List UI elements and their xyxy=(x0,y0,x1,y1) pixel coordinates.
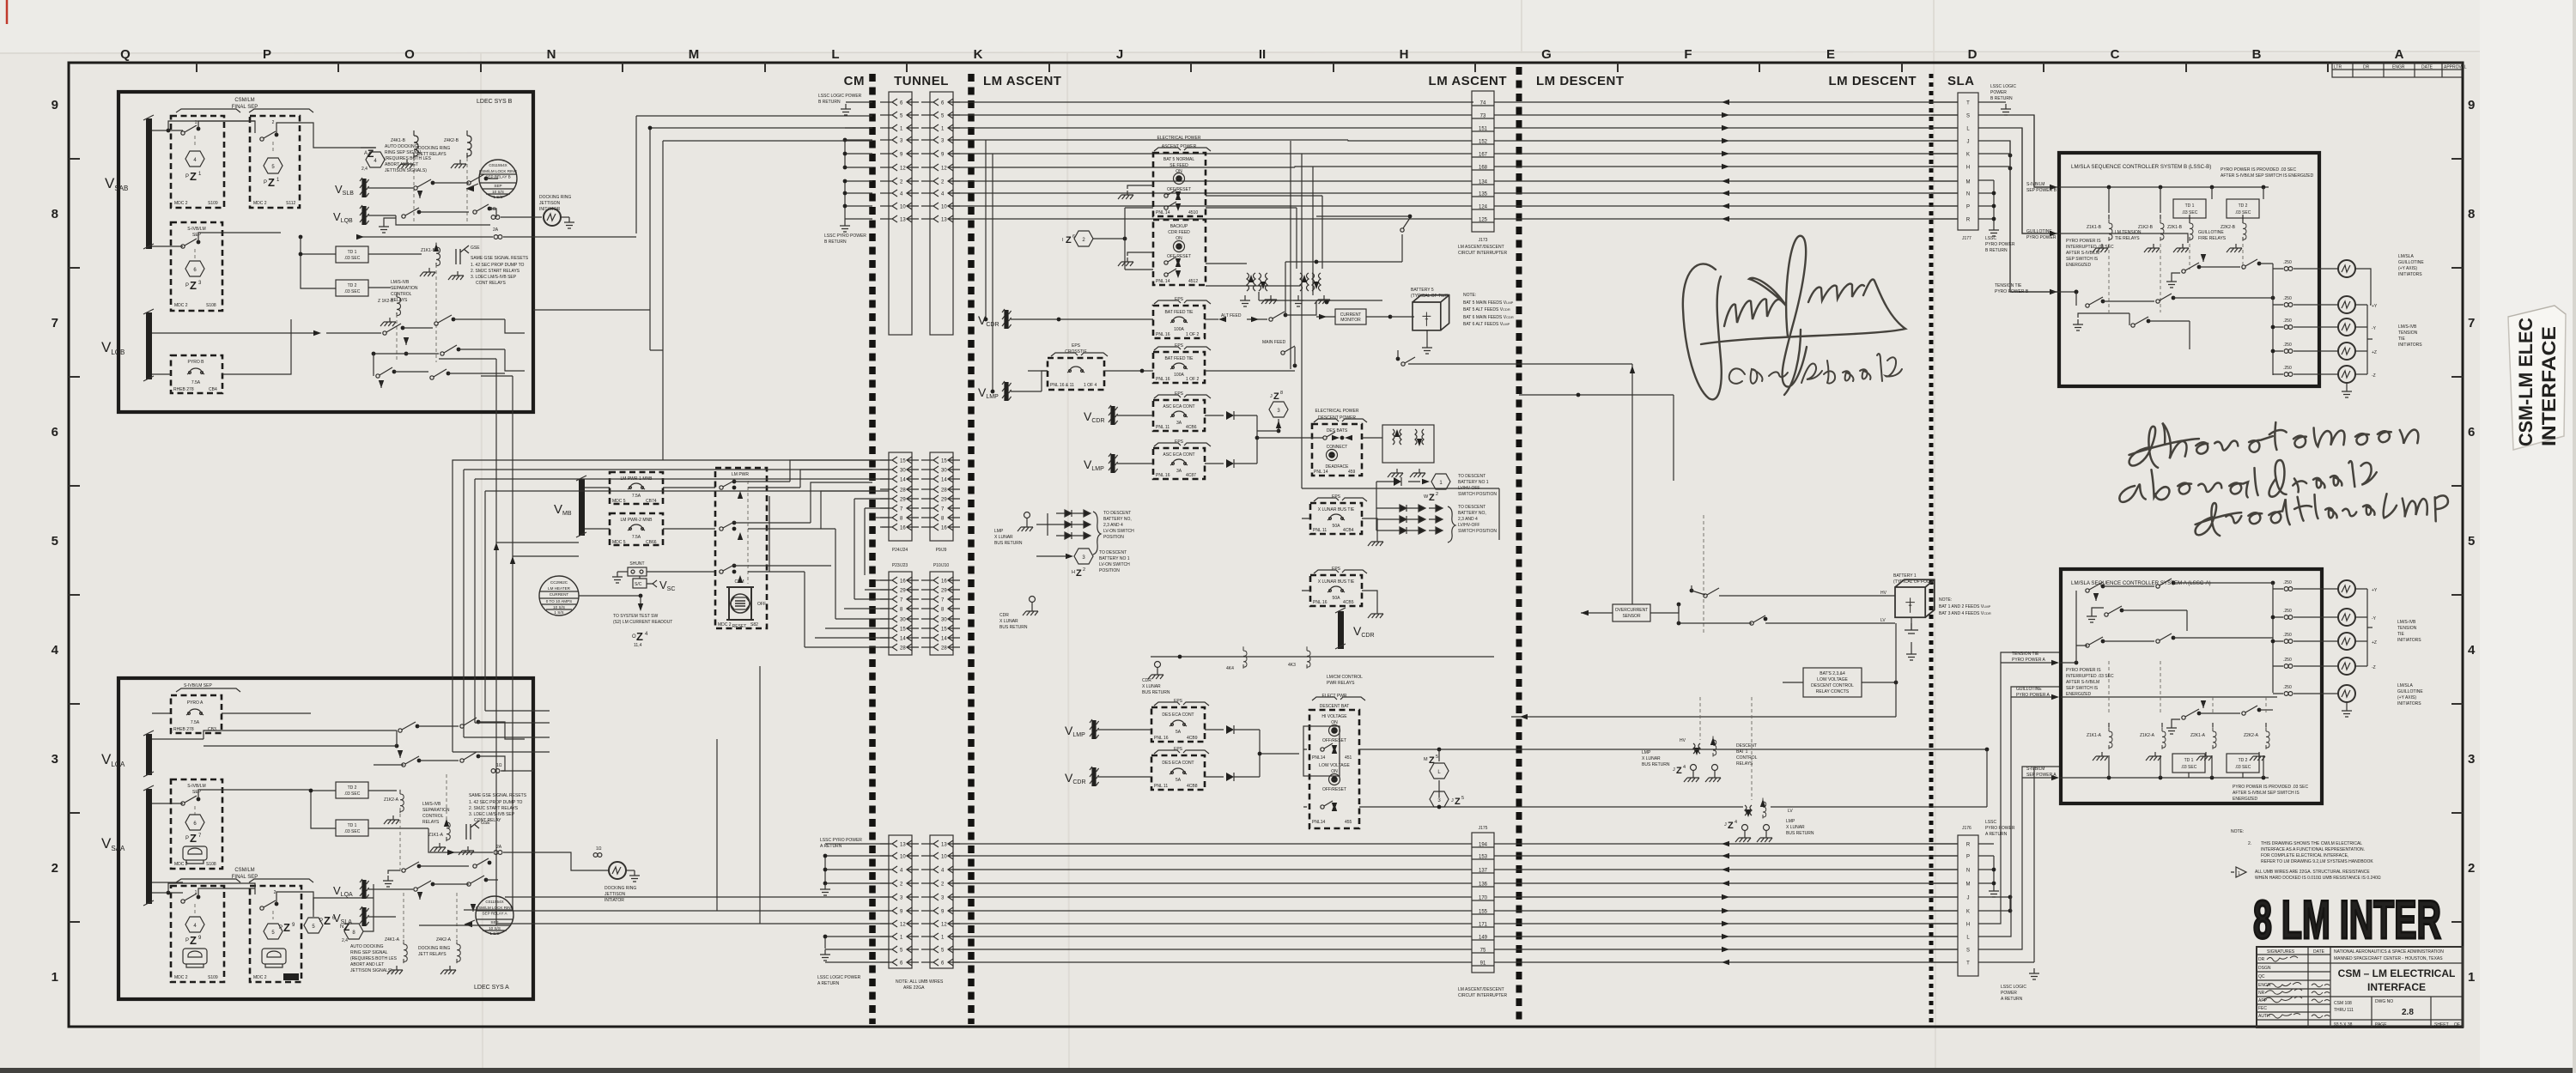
svg-text:12: 12 xyxy=(900,923,906,928)
svg-text:1. 42 SEC PROP DUMP TO: 1. 42 SEC PROP DUMP TO xyxy=(469,800,523,805)
svg-text:5A: 5A xyxy=(1176,778,1182,783)
svg-text:TD 1: TD 1 xyxy=(2184,758,2194,763)
svg-text:.03 SEC: .03 SEC xyxy=(344,289,361,294)
svg-text:ENGR: ENGR xyxy=(2258,983,2271,988)
svg-text:P10/J10: P10/J10 xyxy=(933,563,950,568)
svg-text:ELECTRICAL POWER: ELECTRICAL POWER xyxy=(1157,136,1201,141)
SLA J177 connector xyxy=(1958,93,1978,230)
svg-text:LM HEATER: LM HEATER xyxy=(548,586,571,591)
svg-text:B RETURN: B RETURN xyxy=(824,239,847,245)
svg-text:FOR COMPLETE ELECTRICAL INTERF: FOR COMPLETE ELECTRICAL INTERFACE, xyxy=(2261,853,2348,858)
wires CM side feeding group1 (left nest) xyxy=(533,116,872,460)
svg-text:BAT 3 AND 4 FEEDS VCDR: BAT 3 AND 4 FEEDS VCDR xyxy=(1939,611,1991,616)
svg-text:PNL 14: PNL 14 xyxy=(1314,470,1328,475)
svg-text:93.5 X 38: 93.5 X 38 xyxy=(2334,1022,2353,1028)
diode cluster LV-ON (left) xyxy=(1056,510,1091,539)
zone bar TUNNEL/LM ASCENT xyxy=(968,74,975,1024)
svg-text:T: T xyxy=(1966,101,1970,106)
svg-text:BAT 5 NORMAL: BAT 5 NORMAL xyxy=(1163,157,1194,162)
svg-text:LDEC SYS B: LDEC SYS B xyxy=(477,99,513,105)
svg-text:X LUNAR: X LUNAR xyxy=(994,535,1013,540)
svg-text:4K4: 4K4 xyxy=(1226,666,1234,671)
svg-text:Z: Z xyxy=(268,176,275,189)
svg-text:S/C: S/C xyxy=(635,582,642,587)
svg-text:7: 7 xyxy=(2468,316,2475,330)
svg-text:REFER TO LM DRAWING 9.2,LM SYS: REFER TO LM DRAWING 9.2,LM SYSTEMS HANDB… xyxy=(2261,859,2373,864)
lock ring sep relay A symbol xyxy=(476,896,513,934)
svg-text:SLA: SLA xyxy=(1947,74,1975,88)
svg-text:LM/S-IVB: LM/S-IVB xyxy=(2397,620,2416,625)
svg-text:.250: .250 xyxy=(2283,609,2292,614)
svg-text:BUS RETURN: BUS RETURN xyxy=(1642,762,1670,767)
svg-text:6: 6 xyxy=(52,425,58,440)
svg-text:K: K xyxy=(1966,910,1970,915)
svg-text:15: 15 xyxy=(900,459,906,464)
svg-text:2,4: 2,4 xyxy=(361,167,368,172)
svg-text:CONTROL: CONTROL xyxy=(1736,755,1758,761)
S/C box xyxy=(633,579,647,588)
switch box MDC2 S112 xyxy=(250,116,300,208)
svg-text:2: 2 xyxy=(2468,861,2475,876)
Jim Lovell signature xyxy=(1683,236,1905,400)
svg-text:S109: S109 xyxy=(208,201,218,206)
svg-text:DATE: DATE xyxy=(2421,65,2433,70)
svg-text:X LUNAR: X LUNAR xyxy=(1142,684,1161,689)
svg-text:INITIATORS: INITIATORS xyxy=(2397,638,2421,643)
svg-text:PYRO B: PYRO B xyxy=(188,360,205,365)
Fred Haise LMP xyxy=(2194,490,2449,536)
svg-text:10 S/S: 10 S/S xyxy=(553,605,565,609)
svg-text:DES ECA CONT: DES ECA CONT xyxy=(1162,761,1194,766)
VMB bus bar xyxy=(579,479,585,536)
svg-text:2A: 2A xyxy=(496,845,502,850)
bus bar VLQB xyxy=(146,312,152,379)
svg-text:PNL 14: PNL 14 xyxy=(1156,210,1170,215)
svg-text:HV: HV xyxy=(1880,591,1887,596)
svg-text:MDC 2: MDC 2 xyxy=(174,975,188,980)
svg-text:R: R xyxy=(1966,218,1971,223)
svg-text:ELECT PWR: ELECT PWR xyxy=(1321,694,1346,699)
svg-text:E: E xyxy=(1826,47,1835,62)
svg-text:CONT RELAYS: CONT RELAYS xyxy=(476,281,506,286)
svg-text:LV/HV-OFF: LV/HV-OFF xyxy=(1458,523,1479,528)
svg-text:PNL 11: PNL 11 xyxy=(1313,528,1327,533)
svg-text:RING SEP SIGNAL: RING SEP SIGNAL xyxy=(385,150,422,155)
svg-text:10 S/S: 10 S/S xyxy=(489,926,501,931)
svg-text:P: P xyxy=(264,180,267,185)
svg-text:P: P xyxy=(1966,855,1970,860)
svg-text:CSM/LM: CSM/LM xyxy=(234,868,254,873)
svg-text:.250: .250 xyxy=(2283,296,2292,301)
wires LM PWR to tunnel xyxy=(748,482,831,572)
svg-text:CB74: CB74 xyxy=(646,499,657,504)
svg-text:-Z: -Z xyxy=(2372,665,2376,670)
svg-text:SEPARATION: SEPARATION xyxy=(422,808,450,813)
svg-text:LTR: LTR xyxy=(2334,65,2342,70)
svg-text:MDC 2: MDC 2 xyxy=(174,303,188,308)
wires exiting to initiator xyxy=(396,215,490,225)
svg-text:4: 4 xyxy=(1683,765,1686,770)
svg-text:1 S/S: 1 S/S xyxy=(493,195,502,199)
svg-text:J173: J173 xyxy=(1479,238,1488,243)
svg-text:8: 8 xyxy=(52,207,58,221)
svg-text:14: 14 xyxy=(941,478,947,483)
svg-text:LV-ON SWITCH: LV-ON SWITCH xyxy=(1099,562,1130,567)
heater current circle xyxy=(539,576,579,615)
Flown to the moon xyxy=(2128,414,2419,469)
upper switch rows in A xyxy=(152,730,397,739)
svg-text:JETTISON SIGNALS): JETTISON SIGNALS) xyxy=(350,968,392,973)
svg-text:TENSION TIE: TENSION TIE xyxy=(1995,283,2022,288)
feeder drops from ascent rows xyxy=(986,140,993,391)
switch box S109 xyxy=(171,886,224,982)
svg-text:LV: LV xyxy=(1788,809,1793,814)
svg-text:S112: S112 xyxy=(286,201,296,206)
svg-text:TD 1: TD 1 xyxy=(348,250,357,255)
svg-text:14: 14 xyxy=(900,478,906,483)
svg-text:LSSC PYRO POWER: LSSC PYRO POWER xyxy=(824,233,866,239)
svg-text:4CB9: 4CB9 xyxy=(1187,736,1198,741)
svg-text:EPS: EPS xyxy=(1072,343,1081,349)
svg-text:BACKUP: BACKUP xyxy=(1170,224,1188,229)
svg-text:+Y: +Y xyxy=(2372,304,2378,309)
svg-text:Z4K2-A: Z4K2-A xyxy=(436,937,452,943)
wire runs J175 to SLA J176 xyxy=(1494,843,1958,845)
TD boxes xyxy=(336,246,368,263)
svg-text:30: 30 xyxy=(941,618,947,623)
svg-text:Z: Z xyxy=(190,279,197,292)
svg-text:AUTO DOCKING: AUTO DOCKING xyxy=(385,144,418,149)
svg-text:PYRO POWER IS: PYRO POWER IS xyxy=(2066,668,2101,673)
svg-text:4CB5: 4CB5 xyxy=(1343,600,1354,605)
svg-text:DATE: DATE xyxy=(2313,949,2325,955)
svg-text:12: 12 xyxy=(900,167,906,172)
svg-text:LM DESCENT: LM DESCENT xyxy=(1829,74,1917,88)
svg-text:DOCKING RING: DOCKING RING xyxy=(418,946,450,951)
svg-text:3A: 3A xyxy=(1176,469,1182,474)
svg-text:BUS RETURN: BUS RETURN xyxy=(1786,831,1814,836)
svg-text:ENERGIZED: ENERGIZED xyxy=(2233,797,2258,802)
svg-text:(REQUIRES BOTH LES: (REQUIRES BOTH LES xyxy=(350,956,398,961)
svg-text:II: II xyxy=(1259,47,1266,62)
lower switch rows xyxy=(152,332,318,334)
svg-text:.250: .250 xyxy=(2283,658,2292,663)
svg-text:PNL 11: PNL 11 xyxy=(1156,425,1170,430)
svg-text:1Ω: 1Ω xyxy=(490,207,496,212)
CM-side collector verticals xyxy=(845,128,872,167)
svg-text:TENSION TIE: TENSION TIE xyxy=(2012,652,2039,657)
svg-text:3: 3 xyxy=(2468,752,2475,767)
svg-text:LM PWR: LM PWR xyxy=(732,472,749,477)
svg-text:JETT RELAYS: JETT RELAYS xyxy=(418,952,447,957)
svg-text:Z: Z xyxy=(1429,493,1435,503)
svg-text:Z1K1-A: Z1K1-A xyxy=(428,833,444,838)
svg-text:J: J xyxy=(1451,798,1454,803)
svg-text:1: 1 xyxy=(2238,871,2240,876)
svg-text:CSM/LM LOCK RING: CSM/LM LOCK RING xyxy=(479,169,518,173)
svg-text:4: 4 xyxy=(1735,820,1737,825)
svg-text:14: 14 xyxy=(941,637,947,642)
svg-text:CDR: CDR xyxy=(999,613,1009,618)
svg-text:BUS RETURN: BUS RETURN xyxy=(1142,690,1170,695)
svg-text:BAT'S 2,3,&4: BAT'S 2,3,&4 xyxy=(1820,671,1845,676)
svg-text:1 OF 4: 1 OF 4 xyxy=(1084,383,1097,388)
svg-text:S-IVB/LM: S-IVB/LM xyxy=(187,227,205,232)
svg-text:THRU 111: THRU 111 xyxy=(2334,1008,2354,1013)
svg-text:15: 15 xyxy=(941,627,947,633)
svg-text:Z4K2-B: Z4K2-B xyxy=(444,138,459,143)
svg-text:MANNED SPACECRAFT CENTER: MANNED SPACECRAFT CENTER - HOUSTON, TEXA… xyxy=(2334,956,2443,961)
svg-text:JETTISON: JETTISON xyxy=(539,201,561,206)
svg-text:JETT RELAYS: JETT RELAYS xyxy=(418,152,447,157)
SLA J176 connector xyxy=(1958,835,1978,976)
svg-text:2A: 2A xyxy=(493,227,499,233)
svg-text:CONTROL: CONTROL xyxy=(391,292,412,297)
svg-text:CIRCUIT INTERRUPTER: CIRCUIT INTERRUPTER xyxy=(1458,251,1508,256)
svg-text:INITIATORS: INITIATORS xyxy=(2397,701,2421,706)
svg-text:TO DESCENT: TO DESCENT xyxy=(1458,474,1485,479)
svg-text:O: O xyxy=(404,47,415,62)
svg-text:50A: 50A xyxy=(1333,524,1341,529)
svg-text:POSITION: POSITION xyxy=(1099,568,1120,573)
svg-text:0 TO 10 AMPS: 0 TO 10 AMPS xyxy=(546,599,572,603)
svg-text:ASC ECA CONT: ASC ECA CONT xyxy=(1163,452,1194,458)
svg-text:DWG NO: DWG NO xyxy=(2375,999,2393,1004)
svg-text:TD 2: TD 2 xyxy=(2239,758,2248,763)
svg-text:P23/J23: P23/J23 xyxy=(892,563,908,568)
svg-text:5A: 5A xyxy=(1176,730,1182,735)
LM/SLA sequence controller system A box xyxy=(2061,569,2322,803)
zone bar LM DESCENT/SLA xyxy=(1929,74,1934,1024)
svg-text:RING SEP SIGNAL: RING SEP SIGNAL xyxy=(350,950,388,955)
long wires to descent bat relays xyxy=(1359,749,1743,807)
svg-text:BAT FEED TIE: BAT FEED TIE xyxy=(1164,310,1194,315)
svg-text:P24/J24: P24/J24 xyxy=(892,548,908,553)
wires LM side of group1 going right with jogs xyxy=(953,102,1473,219)
svg-text:12: 12 xyxy=(941,167,947,172)
misc long wires in LM DESCENT mid xyxy=(1519,395,1674,481)
switch & CT pair after bat feed tie xyxy=(1269,318,1273,321)
svg-text:RHEB 278: RHEB 278 xyxy=(173,727,194,732)
switch box S112 xyxy=(250,886,301,982)
svg-text:BATTERY NO 1: BATTERY NO 1 xyxy=(1099,556,1130,561)
svg-text:8 LM INTER: 8 LM INTER xyxy=(2253,890,2441,950)
svg-text:P: P xyxy=(1966,205,1970,210)
svg-text:GSE: GSE xyxy=(471,246,480,251)
svg-text:(+Y AXIS): (+Y AXIS) xyxy=(2397,695,2416,700)
svg-text:BAT 1: BAT 1 xyxy=(1736,749,1748,755)
svg-text:.03 SEC: .03 SEC xyxy=(344,829,361,834)
svg-text:29: 29 xyxy=(900,498,906,503)
J173 circuit interrupter strip xyxy=(1472,91,1494,232)
zone bar CM/TUNNEL xyxy=(869,74,876,1024)
svg-text:2: 2 xyxy=(52,861,58,876)
svg-text:5: 5 xyxy=(1461,796,1464,801)
svg-text:J: J xyxy=(1116,47,1123,62)
svg-text:P: P xyxy=(185,938,189,943)
svg-text:PNL 16: PNL 16 xyxy=(1156,332,1170,337)
svg-text:NOTE: ALL UMB WIRES: NOTE: ALL UMB WIRES xyxy=(896,979,944,985)
svg-text:CURRENT: CURRENT xyxy=(550,592,569,597)
svg-text:LV: LV xyxy=(1880,618,1886,623)
svg-text:LM/S-IVB: LM/S-IVB xyxy=(391,280,410,285)
svg-text:DEADFACE: DEADFACE xyxy=(1326,464,1350,470)
bus bar VLQA xyxy=(146,734,152,775)
svg-text:CONT RELAY: CONT RELAY xyxy=(474,818,501,823)
LDEC SYS A enclosure xyxy=(118,678,533,999)
svg-text:29: 29 xyxy=(941,589,947,594)
svg-text:INITIATORS: INITIATORS xyxy=(2398,343,2422,348)
svg-text:Z2K2-A: Z2K2-A xyxy=(2244,733,2259,738)
svg-text:1 S/S: 1 S/S xyxy=(489,931,499,936)
svg-text:LM DESCENT: LM DESCENT xyxy=(1536,74,1625,88)
svg-text:LM/SLA: LM/SLA xyxy=(2398,254,2414,259)
svg-text:Z: Z xyxy=(636,630,643,643)
svg-text:4C87: 4C87 xyxy=(1186,473,1196,478)
svg-text:.250: .250 xyxy=(2283,366,2292,371)
svg-text:Z2K1-B: Z2K1-B xyxy=(2167,225,2183,230)
svg-text:R: R xyxy=(1966,843,1971,848)
svg-text:P: P xyxy=(279,925,283,931)
svg-text:APPROVAL: APPROVAL xyxy=(2444,65,2467,70)
svg-text:2. SMJC START RELAYS: 2. SMJC START RELAYS xyxy=(471,269,520,274)
svg-text:DESCENT CONTROL: DESCENT CONTROL xyxy=(1811,683,1854,688)
svg-text:MDC 2: MDC 2 xyxy=(253,201,267,206)
BACKUP CDR FEED box xyxy=(1153,220,1206,285)
svg-text:S-IVB/LM: S-IVB/LM xyxy=(2026,182,2044,187)
svg-text:9: 9 xyxy=(52,98,58,112)
svg-text:OFF/RESET: OFF/RESET xyxy=(1322,738,1346,743)
svg-text:28: 28 xyxy=(900,646,906,652)
svg-text:CSM/LM LOCK RING: CSM/LM LOCK RING xyxy=(476,906,514,910)
pyro B box xyxy=(171,355,222,393)
svg-text:SENSOR: SENSOR xyxy=(1622,614,1641,619)
svg-text:16: 16 xyxy=(900,579,906,585)
svg-text:INITIATORS: INITIATORS xyxy=(2398,272,2422,277)
svg-text:16: 16 xyxy=(941,579,947,585)
svg-text:J: J xyxy=(1724,822,1727,827)
svg-text:HI VOLTAGE: HI VOLTAGE xyxy=(1321,714,1347,719)
svg-text:Z1K1-A: Z1K1-A xyxy=(2087,733,2102,738)
svg-text:F: F xyxy=(1684,47,1692,62)
svg-text:PAGE: PAGE xyxy=(2375,1022,2387,1028)
svg-text:SEP SWITCH IS: SEP SWITCH IS xyxy=(2066,686,2099,691)
svg-text:ARE 22GA: ARE 22GA xyxy=(903,985,925,991)
svg-text:7.5A: 7.5A xyxy=(191,380,201,385)
svg-text:-Y: -Y xyxy=(2372,616,2377,621)
svg-text:K: K xyxy=(1966,153,1970,158)
overcurrent sensor xyxy=(1613,604,1650,621)
svg-text:LM ASCENT: LM ASCENT xyxy=(1429,74,1507,88)
svg-text:INTERFACE: INTERFACE xyxy=(2538,326,2560,446)
vertical feeders from LDEC-A up to tunnel xyxy=(439,310,663,925)
svg-text:CONTROL: CONTROL xyxy=(422,814,444,819)
svg-text:AUTO DOCKING: AUTO DOCKING xyxy=(350,944,384,949)
svg-text:(+Y AXIS): (+Y AXIS) xyxy=(2398,266,2417,271)
svg-text:LSSC: LSSC xyxy=(1985,236,1996,241)
wires top of switch boxes xyxy=(152,809,313,917)
svg-text:LMP: LMP xyxy=(1642,750,1651,755)
svg-text:M: M xyxy=(689,47,700,62)
svg-text:16: 16 xyxy=(900,526,906,531)
svg-text:AFTER S-IVB/LM SEP SWITCH IS: AFTER S-IVB/LM SEP SWITCH IS xyxy=(2233,791,2300,796)
svg-text:ELECTRICAL POWER: ELECTRICAL POWER xyxy=(1315,409,1359,414)
svg-text:.03 SEC: .03 SEC xyxy=(344,256,361,261)
svg-text:INTERFACE AS A FUNCTIONAL REPR: INTERFACE AS A FUNCTIONAL REPRESENTATION… xyxy=(2261,847,2365,852)
svg-text:S112: S112 xyxy=(285,975,295,980)
svg-text:.250: .250 xyxy=(2283,685,2292,690)
svg-text:RESET: RESET xyxy=(732,624,747,629)
svg-text:CSM 108: CSM 108 xyxy=(2334,1001,2352,1006)
svg-text:JETTISON: JETTISON xyxy=(605,892,626,897)
svg-text:QC: QC xyxy=(2258,974,2265,979)
switch cluster + lock ring A xyxy=(383,876,393,887)
svg-text:BATTERY NO,: BATTERY NO, xyxy=(1103,517,1132,522)
svg-text:OF: OF xyxy=(2454,1022,2460,1028)
svg-text:LSSC LOGIC POWER: LSSC LOGIC POWER xyxy=(817,975,861,980)
svg-text:BUS RETURN: BUS RETURN xyxy=(999,625,1028,630)
hex Z4 auto docking xyxy=(304,918,323,933)
svg-text:SEPARATION: SEPARATION xyxy=(391,286,418,291)
svg-text:Z4K1-B: Z4K1-B xyxy=(391,138,406,143)
svg-text:.03 SEC: .03 SEC xyxy=(2181,765,2197,770)
svg-text:7: 7 xyxy=(52,316,58,330)
svg-text:Z: Z xyxy=(190,832,197,845)
svg-text:P: P xyxy=(319,918,323,924)
svg-text:RELAY CONCTS: RELAY CONCTS xyxy=(1816,689,1850,694)
svg-text:5: 5 xyxy=(2468,534,2475,549)
svg-text:Z: Z xyxy=(1728,821,1734,831)
svg-text:X LUNAR BUS TIE: X LUNAR BUS TIE xyxy=(1318,579,1355,585)
svg-text:PYRO POWER: PYRO POWER xyxy=(1985,242,2015,247)
svg-text:P9/J9: P9/J9 xyxy=(936,548,947,553)
svg-text:2.8: 2.8 xyxy=(2402,1008,2414,1017)
svg-text:SEP RELAY A: SEP RELAY A xyxy=(482,912,507,916)
BAT 5 NORMAL SE FEED box xyxy=(1153,153,1206,216)
svg-text:PYRO POWER IS: PYRO POWER IS xyxy=(2066,239,2101,244)
svg-text:H: H xyxy=(1400,47,1409,62)
svg-text:1: 1 xyxy=(52,970,58,985)
svg-text:OFF/RESET: OFF/RESET xyxy=(1322,787,1346,792)
svg-text:BAT FEED TIE: BAT FEED TIE xyxy=(1164,356,1194,361)
svg-text:L: L xyxy=(831,47,839,62)
svg-text:POWER: POWER xyxy=(2001,991,2017,996)
svg-text:7.5A: 7.5A xyxy=(632,494,641,499)
svg-text:LM ASCENT/DESCENT: LM ASCENT/DESCENT xyxy=(1458,245,1504,250)
svg-text:MDC 2: MDC 2 xyxy=(174,862,188,867)
svg-text:J176: J176 xyxy=(1962,826,1971,831)
top ticks xyxy=(197,63,2328,72)
svg-text:LM ASCENT/DESCENT: LM ASCENT/DESCENT xyxy=(1458,987,1504,992)
svg-text:TENSION: TENSION xyxy=(2398,330,2418,336)
svg-text:A RETURN: A RETURN xyxy=(820,844,842,849)
svg-text:X LUNAR BUS TIE: X LUNAR BUS TIE xyxy=(1318,507,1355,512)
svg-text:G: G xyxy=(1541,47,1552,62)
svg-text:4K3: 4K3 xyxy=(1288,663,1296,668)
switch cluster + battery 1 xyxy=(1703,515,1704,635)
svg-text:ALL UMB WIRES ARE 22GA. STRUCT: ALL UMB WIRES ARE 22GA. STRUCTURAL RESIS… xyxy=(2255,870,2370,875)
svg-text:S108: S108 xyxy=(206,303,216,308)
svg-text:POSITION: POSITION xyxy=(1103,535,1124,540)
svg-text:2,3 AND 4: 2,3 AND 4 xyxy=(1458,517,1478,522)
svg-text:ABORT AND LET: ABORT AND LET xyxy=(385,162,418,167)
svg-text:GUILLOTINE: GUILLOTINE xyxy=(2016,687,2042,692)
svg-text:2: 2 xyxy=(1436,492,1438,497)
svg-text:TUNNEL: TUNNEL xyxy=(894,74,949,88)
svg-text:GUILLOTINE: GUILLOTINE xyxy=(2397,689,2423,694)
svg-text:TD 2: TD 2 xyxy=(2239,203,2248,209)
svg-text:POWER: POWER xyxy=(1990,90,2007,95)
